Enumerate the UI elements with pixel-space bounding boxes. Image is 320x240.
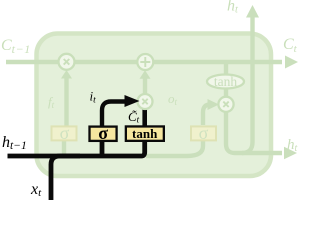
svg-text:σ: σ [60, 123, 70, 143]
svg-text:Ct: Ct [283, 36, 298, 55]
svg-text:tanh: tanh [132, 126, 158, 141]
svg-text:tanh: tanh [214, 74, 237, 89]
svg-text:ht: ht [287, 137, 298, 154]
svg-text:xt: xt [30, 181, 42, 199]
svg-text:Ct−1: Ct−1 [1, 37, 31, 56]
svg-text:ht−1: ht−1 [2, 134, 27, 152]
svg-text:σ: σ [199, 123, 209, 143]
svg-text:σ: σ [98, 123, 108, 143]
svg-text:ht: ht [227, 0, 239, 16]
